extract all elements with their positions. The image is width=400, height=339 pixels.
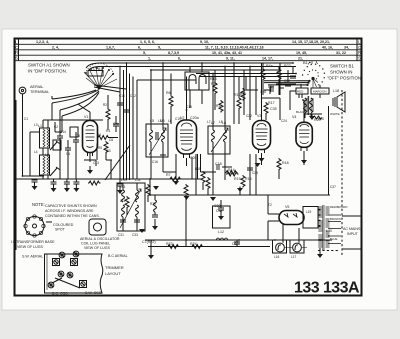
- svg-text:8,7,3,9: 8,7,3,9: [168, 51, 179, 55]
- svg-text:SHOWN IN: SHOWN IN: [330, 70, 352, 75]
- svg-text:C2: C2: [54, 125, 58, 129]
- svg-text:L8: L8: [219, 120, 223, 124]
- svg-text:TERMINAL: TERMINAL: [30, 90, 49, 94]
- svg-text:R2: R2: [103, 103, 107, 107]
- svg-text:L7: L7: [211, 121, 215, 125]
- svg-text:VIEW OF LUGS: VIEW OF LUGS: [84, 246, 111, 250]
- svg-text:R15: R15: [245, 177, 252, 181]
- svg-text:NOTE:: NOTE:: [32, 202, 45, 207]
- svg-text:R23: R23: [166, 242, 173, 246]
- svg-text:C32: C32: [214, 204, 221, 208]
- svg-text:14, 15, 17,18,19, 20,21,: 14, 15, 17,18,19, 20,21,: [292, 40, 330, 44]
- svg-text:1,: 1,: [148, 57, 151, 61]
- svg-text:C27: C27: [232, 242, 239, 246]
- svg-text:S.W. AERIAL: S.W. AERIAL: [22, 255, 43, 259]
- svg-text:R: R: [358, 50, 361, 55]
- svg-text:R7: R7: [166, 173, 171, 177]
- svg-text:C22: C22: [246, 114, 252, 118]
- svg-text:T2: T2: [268, 203, 272, 207]
- svg-text:INPUT: INPUT: [347, 232, 359, 236]
- svg-text:R19: R19: [234, 177, 241, 181]
- svg-text:1,6,7,: 1,6,7,: [106, 46, 115, 50]
- svg-text:R: R: [15, 50, 18, 55]
- svg-text:1, 6, 5, 6,: 1, 6, 5, 6,: [140, 40, 155, 44]
- svg-text:R25: R25: [150, 202, 156, 206]
- svg-text:C28: C28: [260, 90, 266, 94]
- svg-text:L13: L13: [120, 185, 126, 189]
- svg-text:C25: C25: [252, 171, 258, 175]
- svg-text:R4: R4: [97, 133, 101, 137]
- svg-text:C33: C33: [132, 233, 138, 237]
- svg-text:L6: L6: [168, 119, 172, 123]
- svg-text:10, 41, 43a, 43, 41: 10, 41, 43a, 43, 41: [212, 51, 242, 55]
- svg-text:B1: B1: [303, 60, 309, 65]
- svg-text:L4: L4: [34, 150, 38, 154]
- svg-text:ACROSS I.F. WINDINGS ARE: ACROSS I.F. WINDINGS ARE: [45, 209, 94, 213]
- svg-text:9, 10,: 9, 10,: [200, 40, 209, 44]
- svg-text:R13: R13: [240, 92, 246, 96]
- svg-text:6,: 6,: [138, 46, 141, 50]
- svg-text:9, 11,: 9, 11,: [226, 57, 235, 61]
- svg-text:C37: C37: [330, 185, 336, 189]
- svg-text:RED/BROWN: RED/BROWN: [330, 205, 347, 209]
- svg-text:L14: L14: [120, 199, 126, 203]
- svg-text:40, 16,: 40, 16,: [322, 46, 333, 50]
- svg-text:V5: V5: [285, 205, 289, 209]
- svg-text:AC MAINS: AC MAINS: [343, 227, 361, 231]
- svg-text:VIEW OF LUGS: VIEW OF LUGS: [17, 245, 44, 249]
- svg-text:C8: C8: [109, 138, 113, 142]
- svg-text:C20: C20: [190, 156, 197, 160]
- svg-text:SWITCH B1: SWITCH B1: [330, 64, 354, 69]
- svg-text:1,2,3, 4,: 1,2,3, 4,: [36, 40, 49, 44]
- svg-text:5,: 5,: [143, 51, 146, 55]
- svg-text:"OFF" POSITION.: "OFF" POSITION.: [327, 76, 362, 81]
- svg-text:I.F TRANSFORMER BASE: I.F TRANSFORMER BASE: [11, 240, 55, 244]
- svg-text:BLACK: BLACK: [296, 110, 306, 114]
- svg-text:TRIMMER: TRIMMER: [105, 265, 124, 270]
- svg-text:B.C. OSC.: B.C. OSC.: [52, 292, 69, 296]
- svg-text:BLUE: BLUE: [330, 237, 337, 241]
- svg-text:C32: C32: [216, 209, 223, 213]
- svg-text:C13: C13: [93, 161, 99, 165]
- svg-text:V4: V4: [292, 115, 296, 119]
- svg-text:34,: 34,: [344, 46, 349, 50]
- svg-text:C4: C4: [66, 152, 70, 156]
- svg-text:C10: C10: [119, 94, 125, 98]
- svg-text:14, 17,: 14, 17,: [262, 57, 273, 61]
- svg-text:L11: L11: [135, 178, 141, 182]
- svg-text:R16: R16: [210, 77, 217, 81]
- svg-text:R17: R17: [268, 101, 275, 105]
- svg-text:R20: R20: [314, 118, 321, 122]
- svg-text:LAYOUT: LAYOUT: [105, 271, 121, 276]
- svg-text:L5: L5: [150, 119, 154, 123]
- svg-text:C24: C24: [281, 119, 287, 123]
- svg-text:C15: C15: [186, 105, 192, 109]
- svg-text:31, 22: 31, 22: [336, 51, 346, 55]
- svg-text:11, 7, 11, 9,10, 12,13,40,41,4: 11, 7, 11, 9,10, 12,13,40,41,43,17,18: [205, 46, 264, 50]
- svg-text:L2: L2: [45, 153, 49, 157]
- svg-text:CONTAINED WITHIN THE CANS.: CONTAINED WITHIN THE CANS.: [45, 214, 100, 218]
- svg-text:C7(R22): C7(R22): [142, 240, 156, 244]
- svg-text:6,: 6,: [178, 57, 181, 61]
- svg-text:L18: L18: [333, 89, 339, 93]
- svg-text:B.C AERIAL: B.C AERIAL: [108, 254, 128, 258]
- svg-text:C1: C1: [24, 117, 28, 121]
- svg-text:C6: C6: [76, 134, 80, 138]
- svg-text:MAROON: MAROON: [313, 90, 327, 94]
- svg-text:SPOT: SPOT: [55, 228, 66, 232]
- svg-text:19, 45,: 19, 45,: [296, 51, 307, 55]
- svg-text:9,: 9,: [158, 46, 161, 50]
- svg-text:L3: L3: [34, 123, 38, 127]
- svg-text:R1: R1: [106, 129, 111, 133]
- svg-text:C14: C14: [60, 130, 66, 134]
- svg-text:COIL LUG PANEL: COIL LUG PANEL: [81, 242, 110, 246]
- svg-text:C12: C12: [130, 94, 136, 98]
- svg-text:C16: C16: [152, 160, 158, 164]
- svg-text:C18: C18: [215, 162, 222, 166]
- svg-text:2, 4,: 2, 4,: [52, 46, 59, 50]
- svg-text:V1: V1: [84, 115, 88, 119]
- svg-text:C9b: C9b: [113, 122, 119, 126]
- svg-text:S: S: [358, 56, 361, 61]
- svg-text:AERIAL: AERIAL: [30, 85, 44, 89]
- svg-text:R14: R14: [228, 168, 235, 172]
- svg-text:R22: R22: [284, 64, 291, 68]
- svg-text:C31: C31: [118, 233, 124, 237]
- svg-text:R6: R6: [166, 91, 171, 95]
- svg-text:L7: L7: [207, 120, 211, 124]
- svg-text:V3: V3: [257, 114, 261, 118]
- svg-text:IN "DM" POSITION.: IN "DM" POSITION.: [28, 69, 67, 74]
- svg-text:CAPACITIVE SHUNTS SHOWN: CAPACITIVE SHUNTS SHOWN: [45, 204, 97, 208]
- svg-text:L8: L8: [222, 121, 226, 125]
- svg-text:C: C: [15, 45, 18, 50]
- svg-text:L1: L1: [38, 124, 42, 128]
- svg-text:C34: C34: [284, 79, 290, 83]
- svg-text:R24: R24: [190, 242, 197, 246]
- svg-text:RED: RED: [297, 90, 304, 94]
- svg-text:S: S: [15, 56, 18, 61]
- svg-text:R5: R5: [98, 146, 102, 150]
- svg-text:L5: L5: [158, 119, 162, 123]
- svg-text:COLOURED: COLOURED: [53, 223, 74, 227]
- svg-text:"LT A1: "LT A1: [92, 67, 102, 71]
- svg-text:R3: R3: [106, 149, 111, 153]
- svg-text:R11: R11: [195, 167, 201, 171]
- svg-text:BROWN: BROWN: [330, 217, 341, 221]
- svg-text:F1b: F1b: [211, 82, 217, 86]
- svg-text:L19: L19: [306, 210, 312, 214]
- svg-text:L17: L17: [291, 255, 297, 259]
- svg-text:L10: L10: [121, 178, 127, 182]
- svg-text:C20a: C20a: [190, 116, 199, 120]
- svg-text:L12: L12: [218, 230, 224, 234]
- svg-text:AERIAL & OSCILLATOR: AERIAL & OSCILLATOR: [80, 237, 120, 241]
- svg-text:C: C: [358, 45, 361, 50]
- svg-text:133 133A: 133 133A: [294, 280, 360, 297]
- svg-text:C30: C30: [268, 85, 274, 89]
- svg-text:R4a: R4a: [266, 64, 273, 68]
- svg-text:R18: R18: [282, 161, 289, 165]
- svg-text:S.W. OSC.: S.W. OSC.: [85, 291, 102, 295]
- svg-text:WHITE: WHITE: [330, 112, 340, 116]
- svg-text:L 20: L 20: [326, 229, 332, 233]
- svg-text:R12: R12: [216, 104, 222, 108]
- svg-text:C19: C19: [175, 117, 181, 121]
- svg-text:L16: L16: [274, 255, 280, 259]
- svg-text:C35: C35: [270, 107, 277, 111]
- svg-text:SWITCH A1 SHOWN: SWITCH A1 SHOWN: [28, 63, 70, 68]
